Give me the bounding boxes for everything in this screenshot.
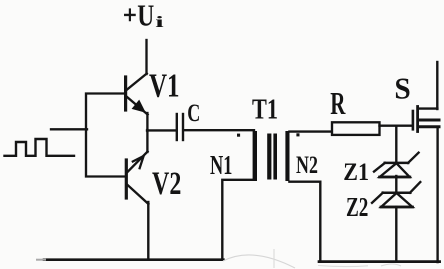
svg-text:N2: N2 xyxy=(296,150,318,179)
svg-text:N1: N1 xyxy=(210,150,232,180)
svg-text:T1: T1 xyxy=(252,93,278,126)
svg-text:S: S xyxy=(394,72,410,105)
svg-text:+: + xyxy=(123,2,137,30)
svg-text:Z2: Z2 xyxy=(346,193,368,223)
svg-text:R: R xyxy=(330,86,346,121)
svg-text:i: i xyxy=(155,13,164,31)
svg-text:V1: V1 xyxy=(149,68,180,104)
svg-text:U: U xyxy=(137,0,154,32)
svg-text:C: C xyxy=(187,98,200,127)
svg-text:Z1: Z1 xyxy=(343,159,369,187)
svg-text:V2: V2 xyxy=(152,167,181,202)
